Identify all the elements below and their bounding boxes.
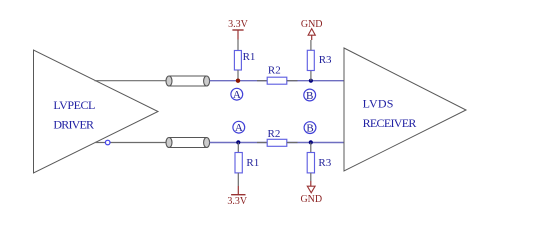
svg-text:R2: R2 [268,65,281,77]
svg-text:RECEIVER: RECEIVER [363,116,417,130]
svg-text:B: B [306,122,313,134]
wire pin stub node A bottom to R1 [237,142,239,152]
wire pin stub R2 top-right [287,80,298,82]
node label B (top) [304,89,316,102]
resistor R1 (top) [234,51,255,71]
svg-text:R3: R3 [318,157,331,169]
driver U1 LVPECL DRIVER triangle [34,50,159,173]
junction node B top (dot) [309,79,313,83]
wire pin stub R3 bottom to GND [310,173,312,181]
resistor R3 (top) [307,50,332,70]
svg-text:A: A [233,89,241,101]
svg-text:3.3V: 3.3V [228,19,249,30]
transmission line T2 (bottom cylinder) [166,138,210,148]
ground GND (bottom) [300,181,322,205]
svg-text:R1: R1 [243,51,256,63]
svg-text:B: B [306,90,313,102]
resistor R2 (top) [267,65,287,85]
junction node A bottom (dot) [236,140,240,144]
junction node A top (dot) [236,79,240,83]
svg-text:GND: GND [300,194,322,205]
inversion bubble on driver bottom output [105,140,110,145]
svg-text:LVPECL: LVPECL [53,98,95,112]
wire driver top output pin [95,80,167,82]
power symbol 3.3V (bottom) [227,186,248,207]
svg-text:R1: R1 [246,157,259,169]
ground GND (top) [301,19,323,40]
wire top net from T1 to receiver [210,80,344,82]
wire pin stub R2 bottom-right [287,142,298,144]
resistor R3 (bottom) [307,153,332,173]
junction node B bottom (dot) [309,140,313,144]
wire bottom net from T2 to receiver [210,142,344,144]
wire pin stub R2 bottom-left [257,142,267,144]
node label A (top) [231,88,243,101]
wire pin stub node B to R3 top [310,71,312,81]
wire driver bottom output pin [95,142,166,144]
svg-text:LVDS: LVDS [363,97,394,111]
svg-text:DRIVER: DRIVER [53,118,94,132]
wire pin stub R1 bottom to 3.3V [237,173,239,186]
wire pin stub R1 top to node A [237,70,239,81]
wire pin stub R3 top to GND [310,40,312,50]
resistor R2 (bottom) [267,128,287,147]
svg-text:A: A [235,122,243,134]
transmission line T1 (top cylinder) [166,76,210,86]
node label A (bottom) [233,121,245,134]
wire pin stub 3.3V to R1 top [237,40,239,51]
power symbol 3.3V (top) [228,19,249,39]
svg-text:R2: R2 [268,128,281,140]
svg-text:3.3V: 3.3V [227,196,248,207]
svg-text:R3: R3 [319,54,332,66]
receiver U2 LVDS RECEIVER triangle [344,48,466,171]
wire pin stub node B bottom to R3 [310,142,312,152]
node label B (bottom) [304,122,316,135]
resistor R1 (bottom) [235,153,259,173]
wire pin stub R2 top-left [257,80,267,82]
